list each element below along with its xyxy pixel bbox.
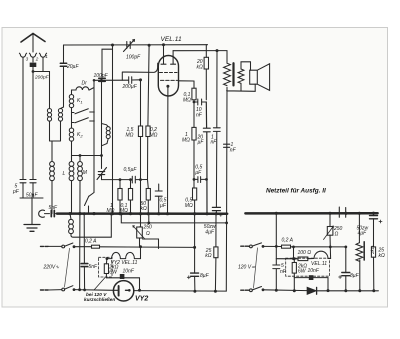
switch arm b (75, 118, 88, 123)
switch coupling link (Netzteil) (254, 248, 258, 288)
wire (51, 181, 53, 214)
svg-text:Dr: Dr (82, 81, 88, 87)
wire plate out (179, 80, 195, 82)
coil K2 (69, 128, 73, 141)
tube anode dashes (161, 79, 178, 81)
coil L (69, 162, 74, 181)
capacitor 20nF (203, 102, 210, 214)
wire heater row (276, 258, 298, 260)
potentiometer 250 Ohm (Netzteil) (329, 213, 331, 226)
svg-text:1: 1 (45, 54, 48, 59)
svg-text:VY2: VY2 (135, 295, 148, 302)
wire + resistor 1MOhm (119, 180, 121, 214)
wire term3 down (22, 58, 24, 180)
svg-text:100 Ω: 100 Ω (298, 250, 312, 256)
svg-text:kΩ: kΩ (197, 65, 204, 71)
capacitor fixed (filled) at x102 (99, 78, 105, 81)
svg-text:3: 3 (26, 57, 29, 62)
tube cathode (166, 85, 169, 88)
transformer secondary (238, 69, 244, 83)
svg-text:nF: nF (211, 140, 218, 146)
svg-text:MΩ: MΩ (182, 138, 190, 144)
node dots Netzteil (275, 212, 278, 215)
coil A (ant primary) (47, 109, 51, 122)
coil K1 (69, 95, 73, 108)
wire grid2 to transformer feed (173, 51, 227, 64)
svg-text:100pF: 100pF (94, 73, 109, 79)
svg-text:5nF: 5nF (89, 264, 99, 270)
svg-text:10nF: 10nF (308, 268, 320, 274)
capacitor 8uF (Netzteil) (345, 247, 347, 291)
diode (selenium rectifier) (307, 287, 316, 294)
tube grid pin right (171, 51, 176, 64)
terminal 1 (39, 53, 46, 57)
wire pot to heater line (140, 227, 159, 249)
capacitor 5nF (Netzteil) (273, 213, 280, 290)
capacitor 0,5uF bridge (194, 177, 206, 183)
svg-text:1: 1 (80, 100, 82, 105)
dashed box (120V short link) (99, 257, 113, 277)
wire VY2 internals (114, 289, 119, 291)
svg-text:kurzschließen: kurzschließen (84, 297, 115, 302)
mains terminals upper left (41, 245, 49, 247)
svg-text:µF: µF (198, 140, 205, 146)
wire (294, 278, 328, 291)
wire (71, 141, 73, 161)
band switch (85, 196, 89, 205)
wire secondary to speaker (241, 62, 255, 92)
capacitor 5pF (20, 180, 26, 183)
tube grid dashes (160, 72, 178, 74)
wire term2 down (32, 58, 34, 63)
field coil (zigzag) (358, 213, 360, 242)
wire (71, 181, 73, 214)
transformer core (232, 63, 234, 85)
resistor 0,1MOhm (192, 88, 196, 100)
switch arm a (75, 109, 88, 114)
wire y246.8 B line (100, 246, 195, 249)
heater chain VY2 VEL11 (107, 247, 141, 259)
coil M (78, 162, 83, 181)
terminals 120V lower (241, 289, 249, 291)
capacitor 50pF (30, 180, 36, 183)
resistor 0,1MOhm (130, 180, 132, 214)
svg-text:L: L (63, 171, 66, 177)
leader line to note (94, 277, 106, 290)
svg-text:kΩ: kΩ (141, 206, 148, 212)
svg-text:Netzteil für Ausfg. II: Netzteil für Ausfg. II (266, 188, 326, 195)
wire y72 row (122, 63, 157, 80)
svg-text:250: 250 (143, 224, 153, 230)
ground (24, 225, 40, 232)
svg-text:2kΩ: 2kΩ (370, 245, 375, 255)
svg-text:kΩ: kΩ (379, 253, 386, 259)
svg-text:nF: nF (230, 148, 237, 154)
wire drop to heater row (293, 247, 295, 259)
svg-text:MΩ: MΩ (185, 203, 193, 209)
svg-text:kΩ: kΩ (205, 253, 212, 259)
resistor 1MOhm grid (192, 127, 196, 140)
rectifier tube VY2 (113, 281, 133, 301)
capacitor 10nF (block) (120, 274, 125, 279)
wire (45, 213, 50, 215)
svg-text:220V∿: 220V∿ (43, 265, 61, 271)
svg-text:MΩ: MΩ (126, 133, 134, 139)
fuse 0,2A (Netzteil) (282, 245, 291, 248)
variable capacitor 100pF (top trimmer) (124, 40, 135, 52)
node y198 (20, 198, 43, 224)
wire (32, 183, 34, 198)
node dots chassis bus (68, 212, 71, 215)
wire bus jog to x102 (102, 45, 113, 77)
terminal 2 (29, 53, 36, 57)
wire to fuse (74, 246, 92, 248)
speaker (250, 64, 270, 91)
wire K chain top (71, 90, 73, 95)
resistor 100 Ohm (298, 257, 308, 261)
wire (308, 258, 314, 260)
choke mains x71 (70, 214, 71, 220)
dashed box Netzteil (286, 258, 330, 276)
switch lower pole (48, 289, 62, 291)
svg-text:VEL.11: VEL.11 (161, 36, 182, 43)
capacitor 8uF electrolytic (191, 273, 199, 276)
svg-text:4µF: 4µF (358, 231, 368, 237)
capacitor 5nF across mains (83, 214, 85, 290)
heater VEL11 arch (314, 247, 331, 259)
Dr choke (72, 87, 89, 90)
resistor 50kOhm (148, 180, 149, 223)
svg-text:MΩ: MΩ (120, 208, 128, 214)
svg-text:120 V≂: 120 V≂ (238, 265, 256, 271)
tube VEL11 envelope (158, 56, 178, 96)
svg-text:2: 2 (35, 57, 39, 62)
svg-text:nF: nF (196, 113, 203, 119)
resistor 20kOhm (205, 45, 207, 100)
node dots misc (139, 78, 142, 81)
choke Dr2 (102, 124, 109, 127)
wire cathode down (167, 87, 169, 214)
switch coupling link (65, 248, 70, 287)
wire x112 long (112, 49, 114, 213)
wire coil bottoms (50, 121, 61, 161)
svg-text:0,2 A: 0,2 A (282, 238, 294, 244)
fuse 0,2A (92, 245, 100, 248)
terminal 3 (19, 53, 26, 57)
capacitor 200uF (129, 77, 132, 84)
wire (101, 175, 103, 180)
wire antenna stem (32, 35, 34, 53)
svg-text:20µF: 20µF (66, 64, 79, 70)
switch upper pole (48, 245, 62, 247)
wire x101.5 junction column (101, 81, 103, 168)
svg-text:MΩ: MΩ (150, 133, 158, 139)
capacitor 10nF block (Netzteil) (309, 275, 314, 280)
bottom bus receiver (134, 290, 227, 293)
potentiometer 250 Ohm (137, 227, 143, 238)
svg-text:Ω: Ω (335, 232, 339, 238)
svg-text:5nF: 5nF (49, 205, 59, 211)
plus sign 8uF (187, 276, 190, 279)
svg-text:8µF: 8µF (200, 273, 210, 279)
wire (80, 181, 94, 290)
svg-text:50µF: 50µF (26, 193, 38, 199)
bus Netzteil top (245, 212, 377, 215)
terminals 120V upper (241, 245, 249, 247)
resistor 2kOhm 6W (104, 264, 108, 274)
field coil core (363, 242, 365, 260)
wire (22, 183, 24, 198)
svg-text:MΩ: MΩ (183, 98, 191, 104)
antenna (21, 34, 45, 43)
svg-text:pF: pF (12, 189, 20, 195)
capacitor 50zw 4uF (Netzteil electrolytic) (373, 213, 375, 247)
wire (291, 246, 346, 248)
wire to VY2 (74, 289, 114, 292)
wire L/M top bracket (72, 156, 102, 162)
node dots lower area (139, 245, 142, 248)
svg-text:8µF: 8µF (350, 273, 360, 279)
svg-text:µF: µF (195, 170, 202, 176)
wire (193, 102, 195, 188)
wire (72, 108, 75, 113)
wire 20uF branch (61, 45, 64, 109)
svg-text:100pF: 100pF (126, 55, 141, 61)
capacitor 10nF (horizontal) (194, 81, 206, 105)
wire to fuse (263, 245, 282, 247)
top bus (64, 44, 208, 46)
transformer primary (224, 63, 231, 85)
plus sign 50zw cap (219, 213, 222, 216)
svg-text:MΩ: MΩ (107, 208, 115, 214)
svg-text:200pF: 200pF (34, 75, 50, 81)
resistor 25kOhm (214, 247, 218, 258)
wire (32, 66, 34, 179)
coil C x52 (50, 162, 55, 181)
tube grid pin left (161, 45, 166, 64)
capacitor 1nF on return line (224, 144, 230, 147)
svg-text:6W: 6W (109, 270, 118, 276)
wire joining bracket to coil A (43, 72, 50, 109)
mains terminals lower left (41, 289, 49, 291)
wire bottom bus Netzteil (263, 290, 378, 291)
svg-text:0,2 A: 0,2 A (85, 238, 97, 244)
capacitor 1nF (213, 51, 220, 208)
wire term1 drop (33, 58, 43, 72)
capacitor 0,5uF (132, 176, 135, 183)
svg-text:nF: nF (280, 269, 287, 275)
wire (124, 278, 139, 291)
svg-text:10nF: 10nF (123, 269, 135, 275)
switch upper (Netzteil) (248, 245, 249, 247)
svg-text:µF: µF (160, 203, 167, 209)
wire (88, 206, 90, 214)
svg-text:4µF: 4µF (205, 229, 215, 235)
switch lower (Netzteil) (248, 289, 249, 291)
svg-text:Ω: Ω (146, 231, 150, 237)
resistor 25kOhm (Netzteil) (371, 247, 375, 257)
VY2 cathode (126, 289, 129, 291)
node dots top bus (111, 44, 114, 47)
wire heater left to 2k (105, 259, 108, 264)
wire x147.5 chain with resistor 0,2MOhm (148, 45, 150, 179)
wire (72, 113, 75, 129)
earth hook connector (39, 210, 45, 217)
variable capacitor (padder) (97, 168, 107, 180)
wire to bus (54, 213, 58, 215)
coil B (ant secondary) (58, 109, 62, 122)
capacitor 0,5nF (155, 184, 162, 214)
svg-text:VEL.11: VEL.11 (311, 261, 327, 267)
wire x140.5 with resistor 1,5MOhm (140, 80, 142, 227)
wire y80 row (94, 79, 141, 82)
capacitor 20uF (60, 63, 66, 66)
stub connections (339, 207, 345, 217)
wire y179.5 row (102, 179, 148, 181)
resistor 0,5MOhm (193, 188, 197, 200)
capacitor 50zw 4uF (electrolytic above bus) (212, 207, 220, 210)
chassis bus (57, 212, 227, 215)
svg-text:0,5µF: 0,5µF (124, 167, 138, 173)
VY2 anode bar (118, 286, 120, 296)
svg-text:200µF: 200µF (122, 84, 138, 90)
resistor 2kOhm (Netzteil) (293, 259, 295, 263)
capacitor 5nF mains (51, 210, 54, 216)
wire y222.9 (121, 214, 226, 223)
capacitor 200pF (30, 63, 37, 67)
svg-text:6W: 6W (298, 268, 307, 274)
